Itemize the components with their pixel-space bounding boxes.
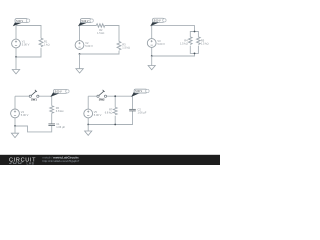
svg-text:5.00 V: 5.00 V	[21, 113, 29, 117]
junction dot circuit 4	[14, 125, 16, 127]
junction dots circuit 5	[114, 95, 116, 97]
footer watermark bar	[0, 155, 220, 165]
switch SW1	[29, 90, 39, 97]
svg-text:LAB: LAB	[27, 162, 35, 165]
svg-text:5.00 V: 5.00 V	[82, 20, 89, 23]
probe badge circuit 5	[131, 89, 149, 97]
probe badge circuit 3	[150, 18, 166, 26]
svg-text:6.8 kΩ: 6.8 kΩ	[105, 110, 113, 114]
ground circuit 4	[11, 126, 18, 138]
ground circuit 2	[76, 54, 83, 73]
wire loop circuit 2	[80, 26, 120, 55]
resistor R4	[189, 37, 193, 45]
svg-text:SW1: SW1	[31, 98, 37, 102]
svg-text:http://circuitlab.com/c/5gvjdn: http://circuitlab.com/c/5gvjdn7	[43, 159, 80, 163]
svg-text:6.8 kΩ: 6.8 kΩ	[56, 109, 64, 113]
svg-text:SW2: SW2	[99, 98, 105, 102]
voltage source V4	[11, 109, 20, 118]
svg-text:1.06 µF: 1.06 µF	[56, 125, 65, 129]
resistor R2 (horizontal)	[96, 24, 104, 27]
svg-text:5.00 V: 5.00 V	[22, 43, 30, 47]
probe badge circuit 2	[78, 19, 93, 27]
resistor R7	[113, 107, 117, 114]
wire loop circuit 1	[16, 26, 41, 58]
svg-text:1.06 µF: 1.06 µF	[138, 111, 147, 115]
wires circuit 4	[15, 96, 52, 132]
resistor R1	[39, 38, 43, 47]
switch SW2	[97, 90, 107, 97]
voltage source V5	[84, 109, 93, 118]
svg-text:5.00 V: 5.00 V	[135, 90, 142, 93]
svg-text:1.5 kΩ: 1.5 kΩ	[122, 45, 130, 49]
probe badge circuit 1	[13, 19, 30, 27]
wire loop circuit 3	[152, 26, 195, 56]
svg-text:5.00 V: 5.00 V	[16, 20, 23, 23]
junction dot circuit 2	[79, 53, 81, 55]
parallel branch wires circuit 3	[190, 32, 198, 54]
CircuitLab logo waveform	[9, 162, 23, 164]
junction dots circuit 3	[194, 31, 196, 33]
capacitor C2	[129, 109, 136, 111]
resistor R3	[117, 42, 121, 51]
resistor R6	[50, 106, 54, 113]
svg-text:1 kΩ: 1 kΩ	[44, 42, 49, 46]
capacitor C1	[48, 124, 55, 126]
ground circuit 5	[85, 125, 92, 136]
svg-text:5.00 V: 5.00 V	[94, 113, 102, 117]
ground circuit 3	[148, 56, 155, 70]
junction dot circuit 1	[15, 56, 17, 58]
wires circuit 5	[88, 96, 132, 124]
svg-text:1.5 kΩ: 1.5 kΩ	[97, 32, 104, 35]
ground circuit 1	[12, 57, 19, 74]
resistor R5	[197, 37, 201, 45]
svg-text:1.5 kΩ: 1.5 kΩ	[201, 42, 209, 46]
voltage source V3	[147, 39, 156, 48]
svg-text:5.00 V: 5.00 V	[55, 91, 62, 94]
svg-text:5.00 V: 5.00 V	[157, 42, 165, 46]
svg-text:1.5 kΩ: 1.5 kΩ	[180, 42, 188, 46]
voltage source V2	[75, 41, 84, 50]
voltage source V1	[12, 39, 21, 48]
svg-text:5.00 V: 5.00 V	[85, 44, 93, 48]
probe badge circuit 4	[50, 89, 69, 97]
svg-text:5.00 V: 5.00 V	[154, 20, 161, 23]
